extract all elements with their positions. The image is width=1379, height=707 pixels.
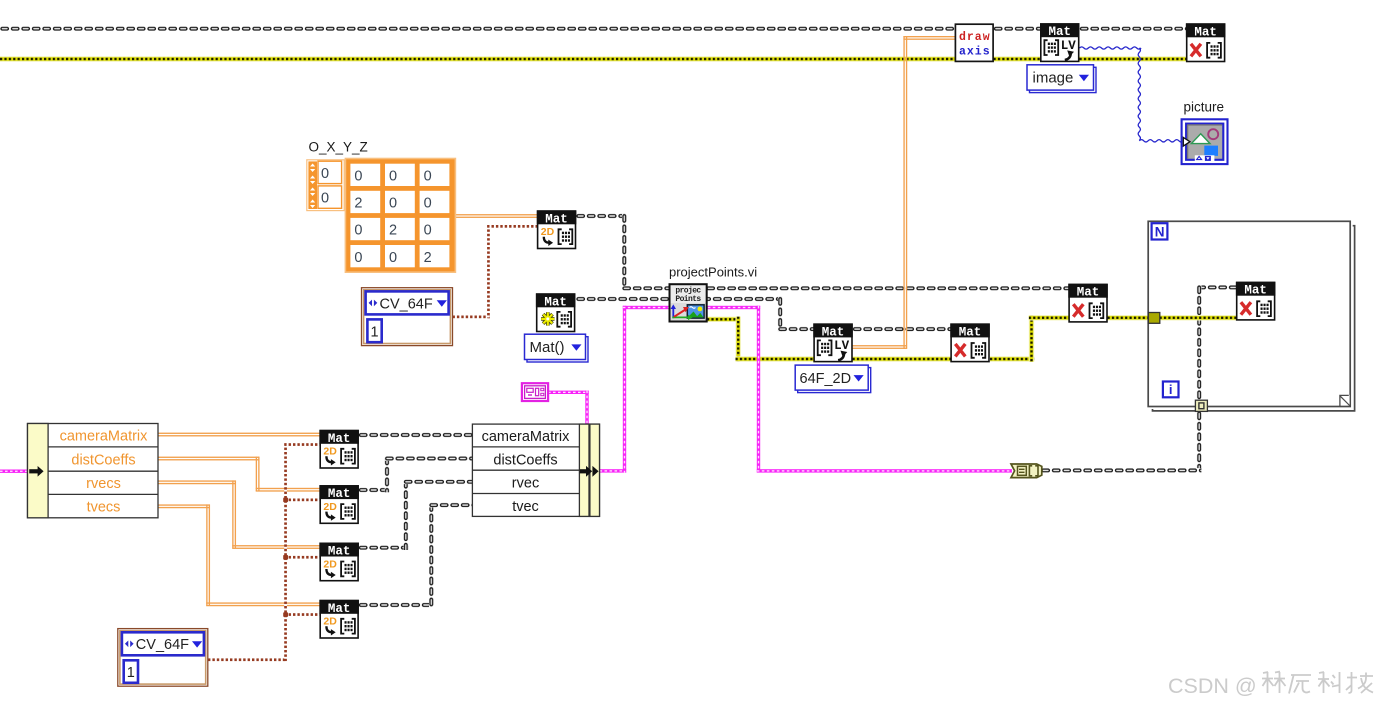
ring constant 64F_2D <box>795 365 871 393</box>
svg-text:N: N <box>1155 224 1165 239</box>
node U13 Mat delete inside for loop <box>1236 282 1276 320</box>
for loop N count terminal <box>1152 223 1168 239</box>
array to cluster node <box>1011 464 1042 478</box>
node U10 Mat converter 2 (distCoeffs) <box>319 485 359 523</box>
svg-text:Mat(): Mat() <box>530 339 565 356</box>
svg-text:64F_2D: 64F_2D <box>800 371 852 387</box>
wire orange from Mat LV up to draw axis <box>853 36 956 349</box>
for loop input tunnel (olive) <box>1148 313 1159 324</box>
svg-text:0: 0 <box>354 169 362 185</box>
svg-text:1: 1 <box>371 324 379 340</box>
for loop page curl <box>1340 395 1351 406</box>
svg-text:0: 0 <box>321 191 329 207</box>
junction dot brown 3 <box>283 612 288 617</box>
wire orange rvecs to Mat3 <box>158 480 320 549</box>
svg-text:Mat: Mat <box>328 432 351 446</box>
svg-text:2: 2 <box>354 196 362 212</box>
svg-text:CV_64F: CV_64F <box>136 637 189 653</box>
svg-text:distCoeffs: distCoeffs <box>71 452 135 468</box>
svg-text:rvec: rvec <box>512 476 539 492</box>
wire chain from Mat 2D converter to projectPoints and Mat delete <box>576 214 1069 291</box>
wire chain Mat2 to bundle distCoeffs <box>359 456 473 492</box>
svg-text:0: 0 <box>354 223 362 239</box>
junction dot brown 1 <box>283 498 288 503</box>
svg-text:draw: draw <box>959 31 991 44</box>
svg-text:0: 0 <box>321 166 329 182</box>
node U11 Mat converter 3 (rvecs) <box>319 543 359 581</box>
svg-text:2: 2 <box>424 250 432 266</box>
svg-text:Mat: Mat <box>545 212 568 226</box>
svg-text:i: i <box>1169 382 1173 397</box>
array constant O_X_Y_Z 4x3 <box>345 159 455 273</box>
node U9 Mat converter 1 (cameraMatrix) <box>319 430 359 468</box>
unbundle cluster control (cameraMatrix/distCoeffs/rvecs/tvecs) <box>28 424 159 518</box>
svg-text:cameraMatrix: cameraMatrix <box>60 429 149 445</box>
wire chain Mat4 to bundle tvec <box>359 503 473 608</box>
node U4 array to Mat 2D converter (top) <box>537 210 577 248</box>
node U2 Mat to LV image converter (top) <box>1040 23 1080 61</box>
svg-text:Mat: Mat <box>1194 25 1217 39</box>
wire brown dotted CV_64F upper to Mat 2D converter <box>453 225 538 318</box>
svg-text:2D: 2D <box>541 226 555 238</box>
wire magenta from cluster type constant to bundle <box>548 391 589 424</box>
svg-text:tvecs: tvecs <box>87 500 121 516</box>
wire brown dotted CV_64F lower to four Mat converters <box>208 443 320 661</box>
svg-text:Mat: Mat <box>328 487 351 501</box>
wire chain inside for loop and down to converter node <box>1041 285 1237 473</box>
for loop i iteration terminal <box>1163 382 1179 398</box>
svg-text:0: 0 <box>424 169 432 185</box>
svg-text:0: 0 <box>424 196 432 212</box>
node U5 Mat create (star) <box>536 293 576 331</box>
svg-text:Mat: Mat <box>1077 286 1100 300</box>
svg-text:CV_64F: CV_64F <box>380 296 433 312</box>
svg-text:cameraMatrix: cameraMatrix <box>482 429 571 445</box>
wire chain from Mat create to Mat LV converter <box>576 297 951 332</box>
svg-text:rvecs: rvecs <box>86 476 121 492</box>
ring constant image <box>1027 65 1096 93</box>
svg-text:Points: Points <box>675 295 701 304</box>
svg-text:Mat: Mat <box>822 325 845 339</box>
node picture indicator <box>1182 119 1228 164</box>
wire olive top main <box>0 56 1186 61</box>
svg-text:0: 0 <box>389 169 397 185</box>
bundle by name cluster (cameraMatrix/distCoeffs/rvec/tvec) <box>472 424 599 516</box>
node U14 projectPoints.vi icon <box>670 284 707 321</box>
svg-text:Mat: Mat <box>1244 284 1267 298</box>
cluster type constant (pink) <box>522 383 548 401</box>
svg-text:Mat: Mat <box>328 545 351 559</box>
wire orange from array constant to Mat 2D converter <box>455 214 538 218</box>
for loop bottom indexing tunnel <box>1195 400 1207 411</box>
svg-text:distCoeffs: distCoeffs <box>493 452 557 468</box>
svg-text:O_X_Y_Z: O_X_Y_Z <box>309 140 368 155</box>
wire magenta cluster from bundle through projectPoints to array-to-cluster node <box>600 306 1013 473</box>
wire olive from projectPoints through Mat LV and deletes to for loop <box>707 315 1237 362</box>
svg-text:image: image <box>1033 70 1074 87</box>
svg-text:Mat: Mat <box>959 325 982 339</box>
svg-text:Mat: Mat <box>1048 25 1071 39</box>
svg-text:tvec: tvec <box>512 499 539 515</box>
node U7 Mat delete (middle) <box>950 323 990 361</box>
node U8 Mat delete (upper middle) <box>1068 284 1108 322</box>
svg-text:Mat: Mat <box>328 602 351 616</box>
svg-text:2D: 2D <box>323 616 337 628</box>
node U3 Mat delete (top right) <box>1186 23 1226 61</box>
node U6 Mat to LV converter (middle) <box>813 323 853 361</box>
junction dot brown 2 <box>283 555 288 560</box>
wire orange tvecs to Mat4 <box>158 504 320 606</box>
svg-text:0: 0 <box>389 250 397 266</box>
node U1 draw axis <box>955 24 993 61</box>
enum constant CV_64F upper <box>362 288 453 346</box>
svg-text:0: 0 <box>354 250 362 266</box>
svg-text:2: 2 <box>389 223 397 239</box>
svg-text:2D: 2D <box>323 446 337 458</box>
wire chain Mat1 to bundle cameraMatrix <box>359 433 473 438</box>
ring constant Mat() <box>525 334 589 362</box>
svg-text:1: 1 <box>127 665 135 681</box>
svg-text:2D: 2D <box>323 558 337 570</box>
wire chain Mat3 to bundle rvec <box>359 480 473 551</box>
wire chain top main <box>0 26 1186 31</box>
svg-text:axis: axis <box>959 46 991 59</box>
wire orange cameraMatrix to Mat1 <box>158 433 320 437</box>
wire orange distCoeffs to Mat2 <box>158 457 320 492</box>
for loop frame <box>1148 221 1354 411</box>
svg-text:0: 0 <box>389 196 397 212</box>
svg-text:projectPoints.vi: projectPoints.vi <box>669 265 757 280</box>
watermark CJK glyphs <box>1262 672 1373 694</box>
enum constant CV_64F lower <box>118 629 208 687</box>
svg-text:CSDN @: CSDN @ <box>1168 674 1257 698</box>
svg-text:2D: 2D <box>323 501 337 513</box>
svg-text:0: 0 <box>424 223 432 239</box>
svg-text:picture: picture <box>1184 100 1225 115</box>
node U12 Mat converter 4 (tvecs) <box>319 600 359 638</box>
wire magenta into unbundle from left edge <box>0 470 30 473</box>
svg-text:Mat: Mat <box>544 295 567 309</box>
array index control <box>307 160 344 211</box>
wire blue wavy from Mat LV to picture indicator <box>1080 47 1184 142</box>
